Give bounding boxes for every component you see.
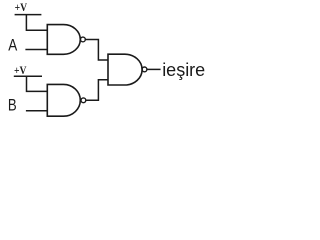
svg-text:ieşire: ieşire	[162, 60, 205, 80]
NAND gate 3 (output) body	[108, 54, 142, 85]
NAND gate 2 (bottom) body	[47, 84, 80, 116]
wire NAND1 output to NAND3 top input	[85, 39, 108, 60]
svg-text:+V: +V	[14, 63, 27, 77]
NAND gate 1 (top) body	[47, 25, 80, 55]
NAND gate 2 output bubble	[81, 98, 86, 103]
svg-text:A: A	[8, 36, 18, 55]
power rail +V top	[15, 14, 42, 16]
wire input B to NAND2 bottom input	[26, 110, 47, 112]
svg-text:+V: +V	[15, 0, 28, 14]
power rail +V bottom	[14, 75, 42, 77]
svg-text:B: B	[8, 96, 17, 115]
wire from +V rail to NAND1 top input	[26, 15, 47, 31]
NAND gate 3 output bubble	[142, 67, 147, 72]
wire NAND3 output to ieşire	[147, 68, 161, 70]
NAND gate 1 output bubble	[81, 37, 86, 42]
wire NAND2 output to NAND3 bottom input	[86, 80, 108, 101]
wire input A to NAND1 bottom input	[25, 49, 47, 51]
wire from +V rail to NAND2 top input	[27, 76, 48, 91]
